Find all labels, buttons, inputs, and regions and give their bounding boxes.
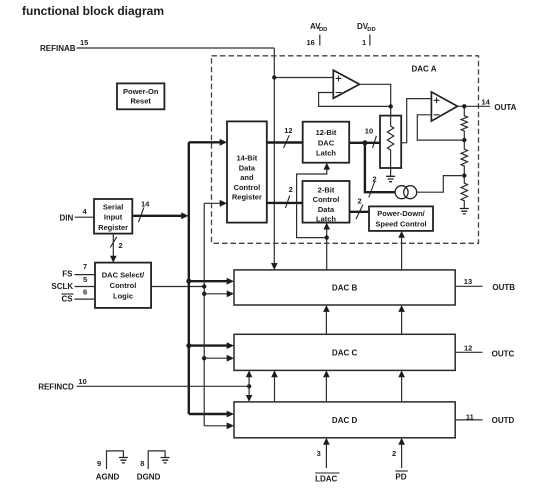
ground under divider <box>460 209 469 214</box>
svg-text:Power-Down/: Power-Down/ <box>377 209 425 218</box>
wire LDAC branch to 12-bit latch <box>297 167 327 238</box>
svg-text:12: 12 <box>464 344 472 353</box>
svg-text:SCLK: SCLK <box>51 282 73 291</box>
wire REFINCD <box>77 385 250 387</box>
bus register to 2-bit latch <box>267 202 303 204</box>
svg-text:REFINCD: REFINCD <box>38 383 74 392</box>
pin AVDD stub <box>319 35 321 46</box>
wire control to DAC D <box>204 425 228 427</box>
2-bit control data latch box <box>303 181 350 223</box>
arrow into 12-bit latch <box>324 163 331 170</box>
arrow into 14-bit register <box>220 139 227 146</box>
node bus branch <box>362 140 367 145</box>
svg-text:DAC C: DAC C <box>332 349 358 358</box>
svg-text:Input: Input <box>104 213 123 222</box>
resistor R-string element <box>387 116 393 168</box>
svg-text:Data: Data <box>239 163 256 172</box>
power-down speed control box <box>369 206 433 231</box>
svg-text:Power-On: Power-On <box>123 87 159 96</box>
wire OUTC <box>455 351 482 353</box>
op-amp U2 output buffer <box>431 92 457 121</box>
svg-text:14-Bit: 14-Bit <box>236 154 257 163</box>
svg-text:LDAC: LDAC <box>315 475 337 484</box>
bus serial register to control logic <box>112 234 114 259</box>
wire wiper tap to U2 <box>401 99 431 143</box>
DAC select control logic box <box>95 263 151 308</box>
wire SCLK <box>75 286 96 288</box>
power-on reset box <box>117 83 164 109</box>
svg-text:and: and <box>240 173 254 182</box>
svg-text:1: 1 <box>362 38 366 47</box>
resistor divider R2 <box>461 140 467 176</box>
arrow into DAC C bottom (ref) <box>246 370 253 377</box>
svg-text:DAC B: DAC B <box>332 284 358 293</box>
wire current source to divider <box>417 176 465 193</box>
svg-text:OUTC: OUTC <box>492 350 515 359</box>
bus register to 12-bit latch <box>267 141 303 143</box>
wire to op-amp U1 + input <box>274 77 333 79</box>
wire U1 output <box>360 84 391 115</box>
arrow into DAC C <box>227 342 234 349</box>
bus data to DAC C <box>189 344 229 346</box>
wire OUTD <box>455 419 482 421</box>
svg-text:Data: Data <box>318 205 335 214</box>
svg-text:Register: Register <box>98 223 128 232</box>
svg-text:2: 2 <box>358 197 362 206</box>
svg-text:Latch: Latch <box>316 149 336 158</box>
arrow into 14-bit register (control) <box>220 200 227 207</box>
wire control to 14-bit register <box>204 202 222 204</box>
svg-text:7: 7 <box>83 262 87 271</box>
pin DVDD stub <box>369 35 371 46</box>
svg-text:10: 10 <box>365 127 373 136</box>
bus main data vertical <box>188 142 190 414</box>
wire REFINAB vertical to DAC B <box>273 48 275 266</box>
svg-text:16: 16 <box>307 38 315 47</box>
wire R-string to ground <box>390 168 392 176</box>
svg-text:9: 9 <box>97 459 101 468</box>
arrow into DAC C bottom (link) <box>271 370 278 377</box>
wire PD chain to power-down box <box>401 235 403 270</box>
wire LDAC chain to 2-bit latch <box>326 227 328 270</box>
resistor divider R3 <box>461 176 467 209</box>
svg-text:Reset: Reset <box>130 97 151 106</box>
wire PD D-to-C <box>401 374 403 402</box>
svg-text:DAC Select/: DAC Select/ <box>102 270 145 279</box>
arrow into control logic <box>110 256 117 263</box>
node LDAC branch <box>325 235 329 239</box>
svg-text:DIN: DIN <box>60 214 74 223</box>
svg-text:Control: Control <box>313 195 340 204</box>
wire control to DAC B <box>204 293 228 295</box>
svg-text:DAC: DAC <box>318 138 335 147</box>
svg-text:5: 5 <box>83 275 87 284</box>
arrow into DAC B bottom <box>323 305 330 312</box>
svg-text:AGND: AGND <box>96 473 120 482</box>
arrow into 2-bit latch <box>323 223 330 230</box>
slash 2 <box>369 182 375 198</box>
slash 14 <box>139 208 144 223</box>
14-bit data and control register box <box>227 121 267 222</box>
wire REFINAB horizontal <box>77 47 275 49</box>
svg-text:14: 14 <box>482 98 491 107</box>
svg-text:2: 2 <box>392 449 396 458</box>
wire D-to-C link <box>274 374 276 402</box>
wire PD C-to-B <box>401 309 403 334</box>
node data DAC C <box>186 343 191 348</box>
svg-text:DAC D: DAC D <box>332 416 358 425</box>
arrow into DAC C bottom (PD) <box>398 370 405 377</box>
arrow into DAC C (control) <box>227 355 234 362</box>
node OUTA junction <box>462 104 466 108</box>
svg-text:2-Bit: 2-Bit <box>318 185 335 194</box>
svg-text:Control: Control <box>110 281 137 290</box>
AGND pin symbol <box>107 451 124 469</box>
bus data to DAC B <box>189 280 229 282</box>
arrow into data bus <box>181 212 188 219</box>
svg-text:PD: PD <box>395 473 406 482</box>
arrow into DAC D <box>227 411 234 418</box>
svg-text:Latch: Latch <box>316 215 336 224</box>
svg-text:DD: DD <box>319 27 327 33</box>
svg-text:OUTA: OUTA <box>494 103 516 112</box>
arrow into DAC D bottom (PD) <box>398 438 405 445</box>
ground DGND <box>161 458 170 463</box>
arrow into DAC B top <box>271 263 278 270</box>
svg-text:Serial: Serial <box>103 202 123 211</box>
DAC B box <box>234 270 455 305</box>
svg-text:FS: FS <box>62 270 73 279</box>
arrow into DAC D (control) <box>227 422 234 429</box>
svg-text:15: 15 <box>80 38 88 47</box>
svg-text:DD: DD <box>367 27 375 33</box>
arrow into DAC B <box>227 278 234 285</box>
wire control logic output <box>151 286 204 288</box>
wire OUTB <box>455 285 482 287</box>
bus data to 14-bit register <box>189 141 222 143</box>
DAC D box <box>234 402 455 438</box>
wire U1 feedback <box>319 93 391 107</box>
op-amp U1 buffer <box>333 70 359 98</box>
wire FS <box>75 274 96 276</box>
wire U2 feedback <box>417 115 464 140</box>
arrow into DAC B bottom (PD) <box>398 305 405 312</box>
svg-text:REFINAB: REFINAB <box>40 44 76 53</box>
ground under R-string <box>386 176 395 181</box>
arrow into power-down box <box>398 231 405 238</box>
wire control vertical <box>203 203 205 425</box>
svg-text:6: 6 <box>83 288 87 297</box>
slash 2 <box>356 205 363 219</box>
arrow into DAC D bottom (LDAC) <box>323 438 330 445</box>
slash 2 <box>110 237 116 248</box>
svg-text:12-Bit: 12-Bit <box>316 128 337 137</box>
arrow into DAC B (control) <box>227 290 234 297</box>
node REFINCD junction <box>247 384 251 388</box>
svg-text:CS: CS <box>62 295 74 304</box>
node current-source tap <box>462 173 466 177</box>
bus data to DAC D <box>189 413 229 415</box>
wire REFINCD to DAC C and DAC D <box>248 374 250 398</box>
slash 2 <box>285 195 289 208</box>
node U1 output junction <box>389 104 393 108</box>
wire LDAC D-to-C <box>325 374 327 402</box>
serial input register box <box>94 199 132 234</box>
svg-text:13: 13 <box>464 277 472 286</box>
bus 12-bit latch to R-string <box>349 142 380 144</box>
svg-text:2: 2 <box>289 185 293 194</box>
svg-text:Speed Control: Speed Control <box>375 219 426 228</box>
12-bit DAC latch box <box>303 122 350 163</box>
svg-text:12: 12 <box>284 126 292 135</box>
wire LDAC pin input <box>325 442 327 468</box>
DAC C box <box>234 334 455 370</box>
bus serial register out 14 <box>132 215 183 217</box>
resistor divider R1 <box>461 106 467 140</box>
svg-text:Logic: Logic <box>113 291 133 300</box>
node REFINAB buffer branch <box>272 75 276 79</box>
arrow into DAC C bottom (LDAC) <box>323 370 330 377</box>
wire control to DAC C <box>204 357 228 359</box>
bus to current source <box>365 143 395 192</box>
node feedback tap <box>462 138 466 142</box>
resistor string box <box>380 116 401 168</box>
svg-text:Register: Register <box>232 193 262 202</box>
svg-text:OUTD: OUTD <box>492 416 515 425</box>
wire DIN input <box>75 216 94 218</box>
bus 2-bit latch to power-down <box>350 211 370 213</box>
node control DAC C <box>202 356 206 360</box>
current source I1 <box>395 186 408 199</box>
node data DAC B <box>186 279 191 284</box>
slash 10 <box>373 136 377 148</box>
ground AGND <box>119 458 128 463</box>
wire OUTA line <box>458 105 491 107</box>
slash 12 <box>284 135 290 148</box>
DGND pin symbol <box>148 451 165 469</box>
node control DAC B <box>202 292 206 296</box>
svg-text:DAC A: DAC A <box>412 64 437 73</box>
svg-text:14: 14 <box>141 200 150 209</box>
wire CS <box>75 298 96 300</box>
svg-text:Control: Control <box>234 183 261 192</box>
wire LDAC C-to-B <box>325 309 327 334</box>
svg-text:OUTB: OUTB <box>492 283 515 292</box>
arrow into DAC D top (ref) <box>246 395 253 402</box>
svg-text:3: 3 <box>317 449 321 458</box>
wire PD pin input <box>401 442 403 468</box>
node control logic join <box>202 284 206 288</box>
svg-text:2: 2 <box>373 175 377 184</box>
svg-text:10: 10 <box>78 377 86 386</box>
svg-text:2: 2 <box>119 241 123 250</box>
dashed DAC A boundary <box>212 56 479 244</box>
svg-text:8: 8 <box>140 459 144 468</box>
svg-text:functional block diagram: functional block diagram <box>22 4 164 18</box>
svg-text:DGND: DGND <box>137 473 161 482</box>
